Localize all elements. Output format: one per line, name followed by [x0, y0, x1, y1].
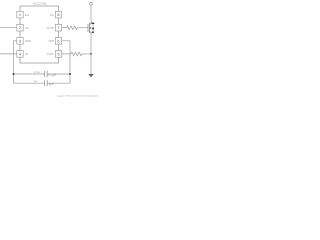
svg-text:OUTL: OUTL — [47, 52, 55, 56]
capacitor C2 — [45, 80, 48, 86]
pin 8 — [50, 11, 62, 18]
svg-text:1µF: 1µF — [48, 82, 55, 86]
wire — [14, 41, 45, 83]
svg-text:3: 3 — [19, 38, 21, 43]
svg-text:1: 1 — [19, 12, 21, 17]
svg-text:5: 5 — [57, 51, 59, 56]
wire — [47, 73, 70, 75]
svg-text:NC: NC — [50, 13, 54, 17]
svg-text:EN: EN — [25, 13, 29, 17]
pin 6 — [48, 38, 61, 45]
svg-text:IN-: IN- — [25, 52, 29, 56]
svg-text:GND: GND — [25, 39, 31, 43]
wire — [0, 27, 17, 29]
wire — [90, 5, 92, 24]
svg-text:UCC27531: UCC27531 — [33, 1, 47, 5]
svg-text:1µ: 1µ — [34, 79, 38, 83]
resistor R2 — [62, 52, 91, 56]
capacitor C1 — [45, 71, 48, 77]
node C — [90, 53, 92, 55]
svg-text:0.1µ: 0.1µ — [34, 70, 40, 74]
wire — [0, 53, 17, 55]
svg-text:8: 8 — [57, 12, 59, 17]
svg-text:0.1µF: 0.1µF — [48, 73, 57, 77]
svg-text:OUTH: OUTH — [46, 26, 54, 30]
wire — [47, 41, 70, 83]
transistor Q1 — [88, 23, 91, 33]
terminal VDD — [90, 2, 93, 5]
svg-text:7: 7 — [57, 25, 59, 30]
wire — [14, 73, 45, 75]
resistor R1 — [62, 26, 88, 30]
diode D1 cathode — [92, 22, 95, 24]
svg-text:VDD: VDD — [48, 39, 54, 43]
wire — [90, 32, 92, 74]
svg-text:2: 2 — [19, 25, 21, 30]
node A — [13, 73, 15, 75]
diode D1 body — [91, 23, 93, 33]
pin 7 — [46, 24, 61, 31]
svg-text:6: 6 — [57, 38, 59, 43]
svg-text:IN+: IN+ — [25, 26, 30, 30]
pin 3 — [17, 38, 31, 45]
diode D1 triangle — [92, 26, 94, 29]
node B — [69, 73, 71, 75]
pin 1 — [17, 11, 29, 18]
svg-text:Copyright © 2016, Texas Instru: Copyright © 2016, Texas Instruments Inco… — [57, 95, 98, 98]
node D — [92, 31, 94, 33]
op-amp U1 — [20, 6, 59, 63]
pin 2 — [17, 24, 30, 31]
pin 4 — [17, 51, 29, 58]
transistor Q1 arrow — [90, 27, 92, 29]
ground — [88, 74, 93, 77]
pin 5 — [47, 51, 62, 58]
